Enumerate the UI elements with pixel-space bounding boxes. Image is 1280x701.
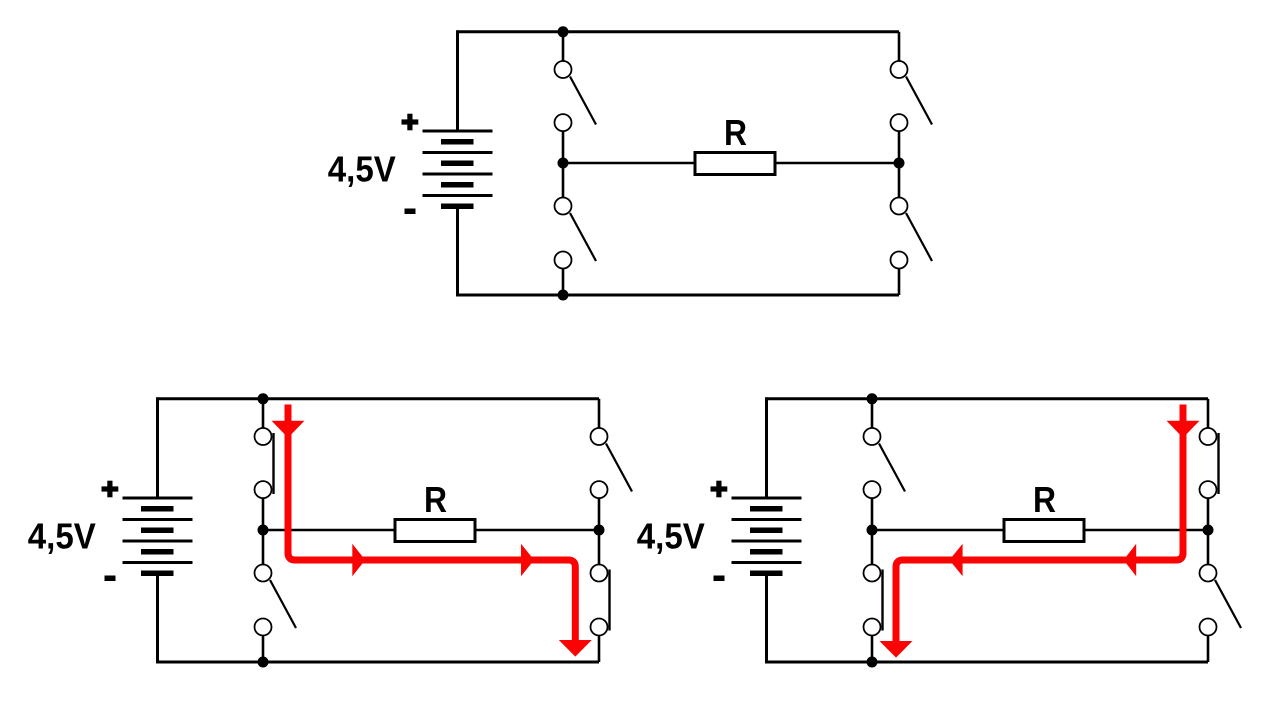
- switch lever S4 closed (bottom right): [609, 570, 611, 631]
- current arrowhead left 2: [1124, 544, 1137, 577]
- current arrowhead down to bottom rail: [880, 641, 913, 658]
- current arrowhead down to bottom rail: [559, 640, 592, 657]
- switch lever S4 open (bottom right): [1215, 580, 1241, 628]
- current arrowhead down into left branch: [272, 421, 305, 438]
- switch lever S1 open (top left): [879, 444, 905, 492]
- switch lever S1 open (top left): [570, 77, 596, 125]
- switch lever S2 closed (top right): [1218, 433, 1220, 494]
- current arrowhead down into right branch: [1167, 421, 1200, 438]
- switch lever S2 open (top right): [906, 77, 932, 125]
- switch lever S1 closed (top left): [273, 433, 275, 494]
- switch lever S3 open (bottom left): [270, 580, 296, 628]
- switch lever S3 open (bottom left): [570, 213, 596, 261]
- current flow path (red) circuit 2: [288, 405, 575, 648]
- current arrowhead right 2: [521, 544, 534, 577]
- current arrowhead left 1: [949, 544, 962, 577]
- switch lever S2 open (top right): [606, 444, 632, 492]
- current flow path (red) circuit 3: [896, 405, 1183, 649]
- switch lever S3 closed (bottom left): [882, 570, 884, 631]
- current arrowhead right 1: [352, 544, 365, 577]
- switch lever S4 open (bottom right): [906, 213, 932, 261]
